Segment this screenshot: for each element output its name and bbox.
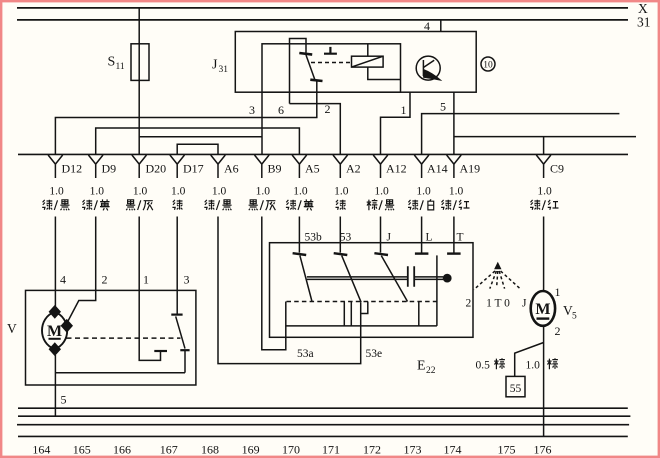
contact drop below L (418, 302, 420, 326)
connector terminal C9 (536, 155, 564, 178)
J blade (381, 256, 407, 302)
svg-text:A19: A19 (460, 161, 481, 175)
connector terminal A6 (211, 155, 239, 178)
wire A14 to terminal L (421, 217, 423, 253)
wire colour label D9 green/yellow (82, 199, 110, 210)
wire coil bottom to inner box right (368, 67, 401, 79)
grid reference numbers (32, 442, 551, 456)
svg-text:165: 165 (73, 442, 91, 456)
relay coil (352, 56, 384, 67)
svg-text:6: 6 (278, 103, 284, 117)
svg-text:D9: D9 (102, 161, 117, 175)
wire drop to connector C9 (543, 137, 545, 155)
svg-text:167: 167 (160, 442, 178, 456)
svg-text:S: S (108, 55, 116, 70)
svg-text:D17: D17 (183, 161, 204, 175)
svg-text:166: 166 (113, 442, 131, 456)
wire motor bottom to pin 5 exit (54, 355, 56, 416)
relay J31 outer box (235, 32, 476, 93)
svg-text:169: 169 (242, 442, 260, 456)
svg-text:10: 10 (483, 60, 493, 70)
wire A19 to terminal T (453, 217, 455, 253)
bottom bus line 1 (18, 407, 628, 409)
wire pin 1 of J31 to connector A12 (381, 92, 411, 154)
svg-text:31: 31 (637, 14, 651, 29)
wire pin 2 of J31 to level-1 then connector D12 (55, 81, 316, 154)
connector terminal A12 (373, 155, 406, 178)
dashed mechanical link of V switch (67, 337, 181, 339)
svg-text:1.0: 1.0 (537, 186, 552, 198)
wire terminal 53e down to A6 (218, 217, 361, 364)
wire colour label D12 green/black (42, 200, 69, 211)
svg-text:1: 1 (143, 273, 149, 287)
motor brush diamond bottom (50, 343, 60, 355)
J contact bar (374, 253, 388, 255)
wire D20 to pin 1 contact (139, 217, 160, 361)
svg-text:1: 1 (401, 103, 407, 117)
svg-text:3: 3 (184, 273, 190, 287)
svg-text:L: L (426, 232, 433, 244)
connector terminal D20 (132, 155, 166, 178)
interior vertical right (436, 255, 438, 326)
svg-text:J: J (212, 58, 218, 73)
pin1 contact bar (154, 350, 167, 352)
relay switch movable blade (306, 55, 315, 79)
washer pump motor V5 (531, 291, 555, 326)
wire terminal 53a down to B9 (262, 217, 286, 350)
svg-text:5: 5 (572, 311, 577, 321)
wash-wipe timer symbol (circle with K arrow) (416, 56, 441, 80)
wire pin 5 of J31 down to connector A19 (453, 92, 455, 154)
wire level-2: connector D9 to connector A5 (96, 128, 300, 154)
wire V5 bottom down to bottom bus 4 (543, 326, 545, 437)
svg-text:164: 164 (32, 442, 50, 456)
wire colour label brown (547, 358, 558, 369)
bottom bus line 4 (18, 435, 628, 437)
connector terminal D12 (48, 155, 82, 178)
motor brush diamond right (62, 320, 72, 332)
connector terminal A19 (447, 155, 481, 178)
svg-text:1 T 0: 1 T 0 (486, 298, 510, 310)
svg-text:55: 55 (510, 383, 522, 395)
bottom bus line 3 (17, 424, 629, 426)
connector terminal A5 (292, 155, 320, 178)
svg-text:171: 171 (322, 442, 340, 456)
wire bus 31 (ground rail) (17, 19, 628, 21)
svg-text:1.0: 1.0 (133, 186, 148, 198)
switch shaft double line (307, 277, 443, 280)
dashed contact row (287, 301, 441, 303)
wire from bus X down to fuse S11 (138, 8, 140, 44)
svg-text:1.0: 1.0 (449, 186, 464, 198)
svg-text:2: 2 (102, 273, 108, 287)
svg-text:B9: B9 (268, 161, 282, 175)
V5 underline (537, 317, 550, 319)
wire level-3: D20 wire to B9 wire (139, 136, 262, 138)
connector rail (18, 153, 628, 155)
svg-text:A2: A2 (346, 161, 361, 175)
svg-text:175: 175 (498, 442, 516, 456)
svg-text:11: 11 (116, 62, 125, 72)
svg-text:1.0: 1.0 (526, 360, 541, 372)
svg-text:3: 3 (249, 103, 255, 117)
wire pin 6 to connector A2 (290, 104, 341, 155)
relay J31 inner box (262, 44, 401, 92)
svg-text:0.5: 0.5 (476, 360, 491, 372)
connector terminal D9 (88, 155, 116, 178)
svg-text:1.0: 1.0 (171, 186, 186, 198)
svg-text:A14: A14 (427, 161, 448, 175)
washer spray nozzle symbol (474, 262, 521, 289)
wire colour label A14 green/white (408, 199, 434, 210)
svg-text:1.0: 1.0 (293, 186, 308, 198)
svg-text:53e: 53e (366, 348, 383, 360)
dashed actuation link (311, 62, 352, 64)
wire pin 3 of J31 down to connector B9 (261, 92, 263, 154)
svg-text:1.0: 1.0 (49, 186, 64, 198)
svg-text:170: 170 (282, 442, 300, 456)
switch bottom bus (286, 325, 437, 327)
svg-text:53b: 53b (305, 232, 323, 244)
svg-text:31: 31 (219, 65, 229, 75)
svg-text:C9: C9 (550, 161, 564, 175)
T contact bar (447, 252, 461, 254)
connector terminal A2 (333, 155, 361, 178)
wire colour label A2 green (336, 200, 346, 210)
wire pin 4 from bus 31 to J31 (440, 20, 442, 32)
wire gauge labels 1.0 row (49, 186, 552, 198)
svg-text:J: J (522, 298, 527, 310)
terminal 55 box (506, 376, 525, 396)
wire colour label D20 black/grey (126, 200, 153, 211)
svg-text:5: 5 (61, 393, 67, 407)
svg-text:D20: D20 (146, 161, 167, 175)
wire A2 to terminal 53 (339, 217, 341, 253)
bottom bus line 2 (18, 415, 630, 417)
wire pin 6 internal route (290, 39, 307, 104)
pin3 switch blade (176, 316, 185, 348)
svg-text:M: M (535, 301, 550, 318)
motor brush diamond top (50, 306, 60, 318)
svg-text:176: 176 (534, 442, 552, 456)
wire coil top to inner box (367, 44, 369, 56)
svg-text:1.0: 1.0 (256, 186, 271, 198)
pin3 fixed contact bar (171, 314, 182, 316)
svg-text:53: 53 (340, 232, 352, 244)
blade bottom contact bar (180, 349, 189, 351)
wiper switch E22 box (270, 243, 474, 338)
53b contact bar (293, 253, 307, 255)
svg-text:J: J (387, 232, 392, 244)
wire colour label A5 green/yellow (286, 199, 314, 210)
wire branch from pin5 wire to the right (open end) (454, 136, 636, 138)
wire common bottom bus of V box (55, 372, 185, 374)
svg-text:1.0: 1.0 (90, 186, 105, 198)
knob (black dot) (443, 274, 452, 283)
wire colour label D17 green (172, 200, 182, 210)
svg-text:53a: 53a (297, 348, 314, 360)
svg-text:174: 174 (444, 442, 462, 456)
wire colour label A12 brown/black (367, 199, 395, 210)
wire A5 to terminal 53b (298, 217, 300, 253)
wire blade contact down to common (184, 351, 186, 373)
53b blade (300, 256, 312, 302)
svg-text:M: M (47, 323, 62, 340)
relay switch fixed contact (top bar) (299, 53, 312, 55)
connector terminal D17 (170, 155, 204, 178)
contact hook near 53e (361, 302, 368, 314)
wire colour label A6 green/black (204, 200, 231, 211)
svg-text:1.0: 1.0 (212, 186, 227, 198)
svg-text:173: 173 (404, 442, 422, 456)
wire size label 0.5 brown (476, 358, 505, 371)
svg-text:4: 4 (60, 273, 66, 287)
svg-text:1.0: 1.0 (334, 186, 349, 198)
contact pair below dashed row (344, 302, 351, 326)
wire C9 to washer pump V5 (543, 217, 545, 292)
wire colour label B9 black/grey (249, 200, 276, 211)
wire colour label C9 green/red (530, 200, 558, 210)
wire D9 to motor pin 2 (68, 217, 96, 323)
53 blade (342, 256, 361, 303)
svg-text:4: 4 (424, 19, 430, 33)
svg-text:1: 1 (555, 285, 561, 299)
wire fuse S11 to connector D20 (138, 80, 140, 154)
wire connector A14 up and right (open end) (422, 114, 620, 155)
L contact bar (415, 252, 429, 254)
fuse S11 (131, 44, 149, 81)
wiper motor unit V box (26, 290, 196, 385)
svg-text:168: 168 (201, 442, 219, 456)
wire D17 to pin 3 contact (176, 217, 178, 315)
svg-text:22: 22 (426, 366, 436, 376)
wire A12 to terminal J (380, 217, 382, 253)
svg-text:T: T (457, 232, 464, 244)
wire colour label A19 green/red (441, 200, 469, 210)
svg-text:2: 2 (466, 298, 472, 310)
svg-text:A5: A5 (305, 161, 320, 175)
wire jumper D17 to A6 (177, 144, 218, 154)
svg-text:A12: A12 (386, 161, 407, 175)
svg-text:V: V (7, 321, 17, 336)
svg-text:1.0: 1.0 (416, 186, 431, 198)
NC contact symbol (inverted T) (324, 47, 337, 54)
svg-text:5: 5 (440, 100, 446, 114)
motor underline (49, 338, 61, 340)
wire branch to terminal 55 (515, 343, 544, 377)
svg-text:172: 172 (363, 442, 381, 456)
motor M armature (lens shape) (42, 312, 67, 349)
connector terminal A14 (414, 155, 447, 178)
wire bus X (positive supply rail) (17, 7, 628, 9)
capacitor plates on shaft (408, 266, 414, 286)
53 contact bar (334, 253, 348, 255)
svg-text:E: E (417, 359, 426, 374)
svg-text:1.0: 1.0 (374, 186, 389, 198)
relay switch bottom contact bar (310, 80, 322, 81)
connector terminal B9 (254, 155, 281, 178)
circled numeral 10 (481, 57, 495, 71)
svg-text:2: 2 (555, 324, 561, 338)
svg-text:D12: D12 (62, 161, 83, 175)
wire D12 to motor pin 4 (54, 217, 56, 308)
svg-text:A6: A6 (224, 161, 239, 175)
